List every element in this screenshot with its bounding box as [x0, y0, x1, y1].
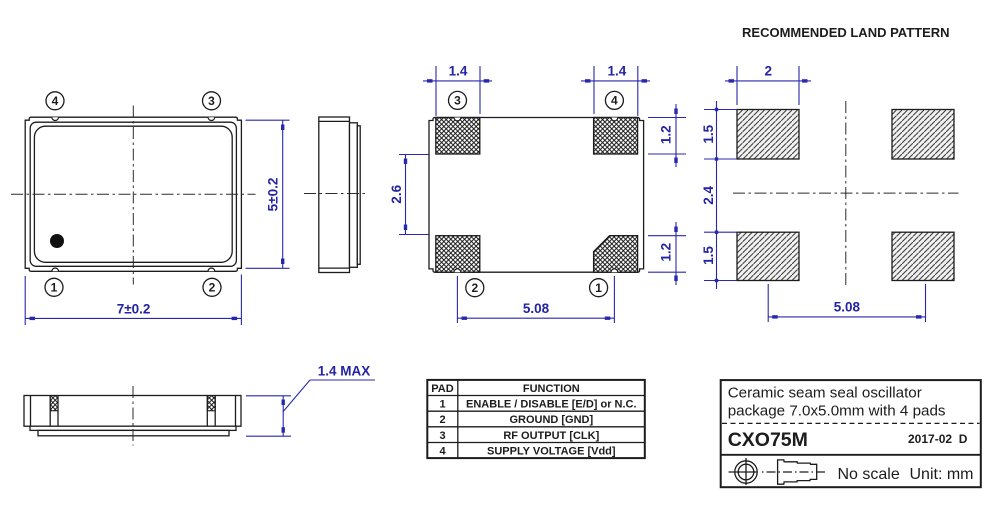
top view notch near pin 1 [52, 268, 59, 271]
dimension 2 [725, 64, 811, 105]
pin id circle 4 [46, 92, 64, 110]
svg-text:CXO75M: CXO75M [728, 429, 808, 451]
pin id circle 2 [203, 278, 221, 296]
profile castellation left [50, 396, 58, 427]
svg-text:1.5: 1.5 [701, 246, 716, 265]
table row 3 [439, 430, 599, 442]
top view notch near pin 4 [52, 117, 59, 120]
projection symbol frustum [778, 460, 817, 484]
pin 1 index dot [50, 234, 64, 248]
svg-text:Ceramic seam seal oscillator: Ceramic seam seal oscillator [728, 385, 922, 402]
dimension 5.08 bottom view [457, 276, 614, 323]
svg-text:5±0.2: 5±0.2 [265, 178, 280, 212]
top view vertical centerline [132, 106, 134, 285]
pad id circle 1 [590, 279, 608, 297]
title text [728, 385, 946, 420]
land pattern heading [742, 25, 950, 40]
title block frame [721, 380, 981, 487]
svg-text:ENABLE / DISABLE [E/D] or N: ENABLE / DISABLE [E/D] or N.C. [466, 399, 637, 411]
dimension 1.2 lower [648, 222, 686, 285]
bottom view notch pad 4 [611, 118, 618, 121]
svg-text:SUPPLY VOLTAGE [Vdd]: SUPPLY VOLTAGE [Vdd] [487, 446, 616, 458]
bottom view notch pad 1 [611, 269, 618, 272]
svg-text:5.08: 5.08 [834, 300, 861, 315]
svg-text:GROUND [GND]: GROUND [GND] [509, 414, 593, 426]
scale note [838, 466, 900, 483]
profile castellation right [207, 396, 215, 427]
pad id circle 2 [466, 279, 484, 297]
svg-text:2: 2 [209, 281, 216, 295]
svg-text:3: 3 [454, 94, 461, 108]
top view notch near pin 3 [208, 117, 215, 120]
table header FUNCTION [523, 383, 580, 395]
svg-text:4: 4 [439, 446, 446, 458]
svg-text:1.4: 1.4 [449, 64, 468, 79]
side view body [319, 117, 350, 273]
side view lid step 1 [350, 123, 358, 267]
land pad bottom-right [892, 232, 954, 280]
svg-text:2.6: 2.6 [389, 184, 404, 203]
bottom view package outline [429, 118, 644, 273]
profile lid step 1 [30, 426, 236, 430]
top view horizontal centerline [11, 193, 256, 195]
svg-text:3: 3 [439, 430, 445, 442]
svg-text:1: 1 [439, 399, 445, 411]
unit note [910, 466, 974, 483]
svg-text:1.4 MAX: 1.4 MAX [318, 364, 371, 379]
table row 4 [439, 446, 615, 458]
svg-text:2: 2 [471, 281, 478, 295]
svg-text:1.2: 1.2 [659, 243, 674, 262]
dimension column 1.5 / 2.4 / 1.5 [701, 101, 737, 289]
svg-text:RECOMMENDED LAND PATTERN: RECOMMENDED LAND PATTERN [742, 25, 950, 40]
revision date [908, 432, 968, 446]
svg-text:2: 2 [764, 64, 772, 79]
svg-text:FUNCTION: FUNCTION [523, 383, 580, 395]
svg-text:2.4: 2.4 [701, 185, 716, 204]
title block dashed separator [722, 422, 980, 424]
projection symbol circle [729, 458, 758, 485]
pad function table [427, 380, 645, 458]
pad id circle 3 [449, 91, 467, 109]
svg-text:2: 2 [439, 414, 445, 426]
svg-text:1.2: 1.2 [659, 125, 674, 144]
svg-text:No scale: No scale [838, 466, 900, 483]
svg-text:1: 1 [595, 281, 602, 295]
pad id circle 4 [605, 91, 623, 109]
svg-text:4: 4 [52, 94, 59, 108]
bottom view notch pad 2 [454, 269, 461, 272]
land pad top-right [892, 110, 954, 160]
table row 1 [439, 399, 636, 411]
svg-text:1: 1 [51, 281, 58, 295]
svg-text:package 7.0x5.0mm with 4 pads: package 7.0x5.0mm with 4 pads [728, 403, 946, 420]
svg-text:7±0.2: 7±0.2 [117, 302, 151, 317]
svg-text:1.4: 1.4 [608, 64, 627, 79]
bottom view notch pad 3 [454, 118, 461, 121]
pad 1 (bottom view bottom-right, chamfered) [594, 236, 638, 273]
pad 2 (bottom view bottom-left) [436, 236, 480, 273]
profile view body [24, 396, 241, 427]
title block solid separator [721, 454, 981, 456]
land pad top-left [737, 110, 799, 160]
svg-text:2017-02 D: 2017-02 D [908, 432, 968, 446]
svg-text:PAD: PAD [431, 383, 453, 395]
dimension 1.2 upper [648, 104, 686, 167]
table row 2 [439, 414, 593, 426]
top view package outline [25, 117, 241, 271]
land pattern vertical centerline [845, 101, 847, 286]
svg-text:Unit: mm: Unit: mm [910, 466, 974, 483]
part number CXO75M [728, 429, 808, 451]
pad 4 (bottom view top-right) [594, 118, 638, 155]
svg-text:4: 4 [611, 94, 618, 108]
top view notch near pin 2 [208, 268, 215, 271]
land pattern horizontal centerline [733, 192, 959, 194]
svg-text:1.5: 1.5 [701, 124, 716, 143]
profile centerline [132, 386, 134, 446]
dimension 5±0.2 [246, 120, 290, 268]
dimension 1.4 MAX [246, 364, 375, 437]
side view lid step 2 [357, 126, 360, 264]
pin id circle 1 [45, 278, 63, 296]
table header PAD [431, 383, 453, 395]
dimension 7±0.2 [25, 275, 241, 326]
land pad bottom-left [737, 232, 799, 280]
svg-text:RF OUTPUT [CLK]: RF OUTPUT [CLK] [503, 430, 599, 442]
svg-text:3: 3 [208, 94, 215, 108]
dimension 1.4 right [581, 64, 650, 116]
dimension 5.08 land pattern [768, 284, 925, 322]
profile lid step 2 [38, 430, 229, 435]
pad 3 (bottom view top-left) [436, 118, 480, 155]
side view centerline [304, 193, 368, 195]
projection symbol centerline [762, 471, 825, 473]
dimension 1.4 left [423, 64, 492, 116]
svg-text:5.08: 5.08 [523, 301, 550, 316]
pin id circle 3 [203, 92, 221, 110]
dimension 2.6 [389, 155, 429, 235]
